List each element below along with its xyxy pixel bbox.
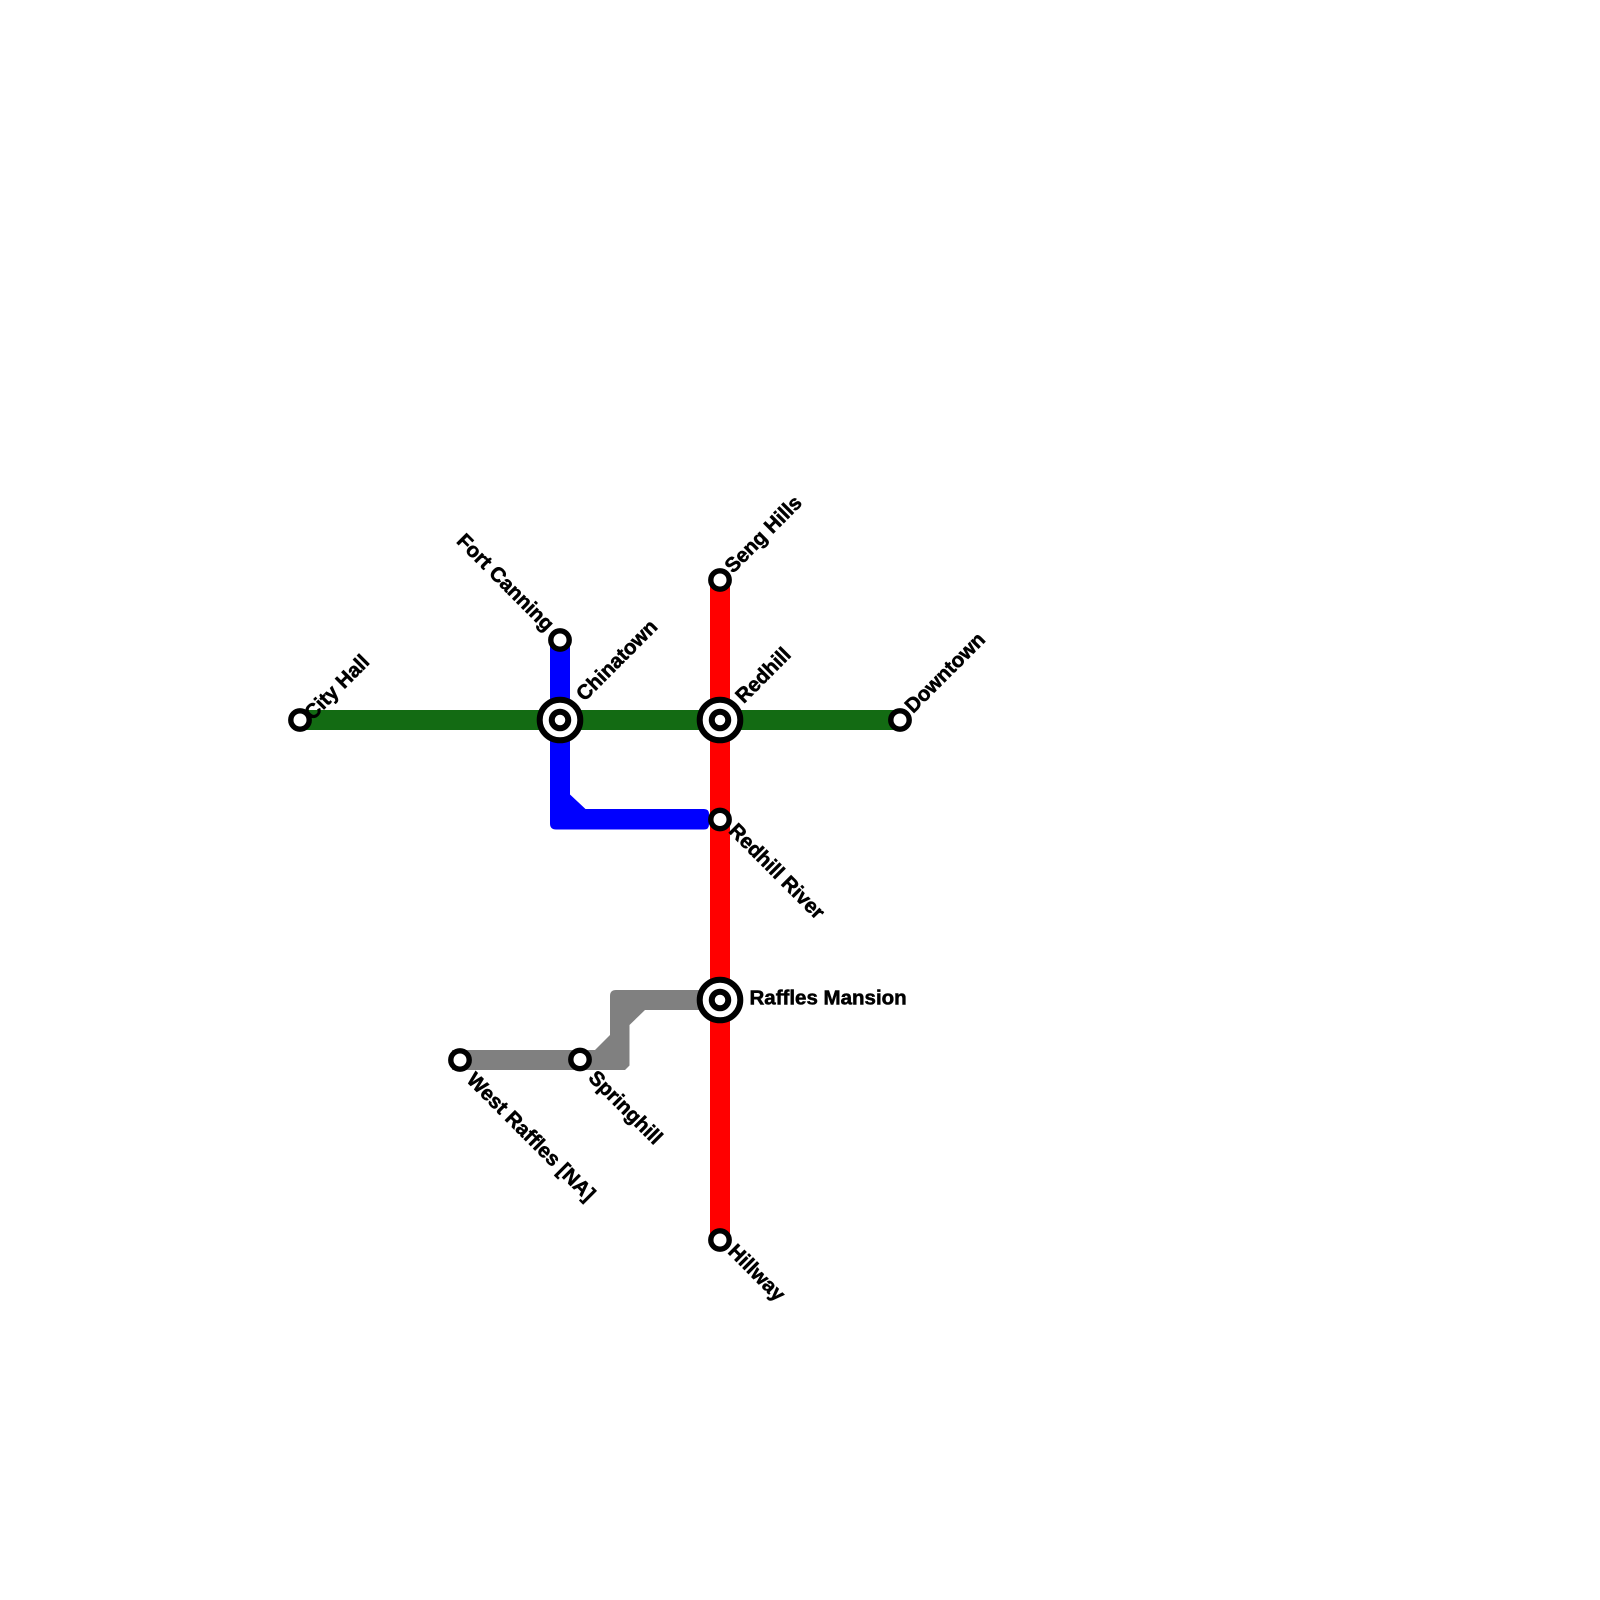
station Downtown	[891, 711, 909, 729]
blue line Fort Canning - Redhill River	[550, 640, 709, 830]
station Fort Canning	[551, 631, 569, 649]
station City Hall	[291, 711, 309, 729]
station West Raffles [NA]	[451, 1051, 469, 1069]
green line City Hall - Downtown	[300, 710, 900, 730]
interchange Chinatown	[540, 700, 581, 741]
interchange Redhill	[700, 700, 741, 741]
station Springhill	[571, 1050, 589, 1068]
station Seng Hills	[711, 571, 729, 589]
red line Seng Hills - Hillway	[710, 580, 730, 1240]
station Redhill River	[711, 810, 729, 828]
interchange Raffles Mansion	[700, 980, 741, 1021]
gray line West Raffles - Springhill - Raffles Mansion	[452, 990, 722, 1070]
svg-text:Raffles Mansion: Raffles Mansion	[750, 987, 907, 1010]
station Hillway	[711, 1231, 729, 1249]
